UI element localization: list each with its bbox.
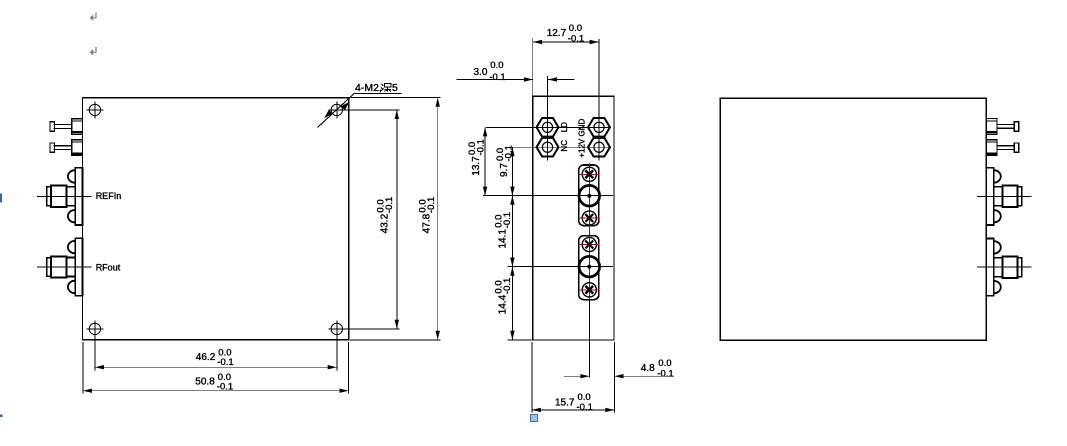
svg-text:-0.1: -0.1 [217, 357, 233, 368]
svg-text:0.0: 0.0 [490, 60, 503, 71]
dim 13.7 [467, 127, 487, 195]
dim 46.2 horizontal [95, 335, 337, 371]
slot outline group 1 [579, 165, 599, 226]
svg-text:12.7: 12.7 [547, 28, 567, 39]
svg-text:-0.1: -0.1 [384, 197, 395, 213]
dim 3.0 [457, 60, 575, 83]
corner hole bottom-left [86, 320, 103, 344]
dim 43.2 vertical [344, 110, 400, 329]
svg-text:-0.1: -0.1 [426, 197, 437, 213]
svg-text:LD: LD [560, 122, 569, 132]
svg-text:14.1: 14.1 [497, 229, 508, 249]
svg-text:-0.1: -0.1 [476, 139, 487, 155]
vertical extension below group 2 [588, 300, 590, 378]
svg-text:4.8: 4.8 [641, 363, 655, 374]
svg-text:14.4: 14.4 [497, 294, 508, 314]
dim 14.1 [493, 196, 514, 267]
paragraph mark 1 [91, 13, 97, 21]
dim 15.7 [532, 342, 615, 413]
small circle 2b [579, 283, 600, 297]
small circle 2a [579, 237, 600, 251]
SMA connector right view top [977, 168, 1031, 225]
dim 50.8 horizontal [83, 342, 349, 394]
right view body outline [720, 98, 986, 340]
svg-text:RFout: RFout [96, 263, 121, 273]
middle view body outline [533, 96, 614, 340]
hand-drawn CJK shen (depth) glyph [381, 84, 391, 92]
left view body outline [83, 98, 349, 340]
dim 9.7 [495, 145, 515, 196]
svg-text:REFIn: REFIn [96, 191, 122, 201]
hex nut +12V [588, 138, 610, 157]
svg-text:-0.1: -0.1 [568, 33, 584, 44]
svg-text:3.0: 3.0 [474, 67, 488, 78]
blue margin tick 1 [0, 194, 2, 203]
svg-text:-0.1: -0.1 [502, 212, 513, 228]
small circle 1a [579, 167, 600, 181]
nut row1 centerline [486, 126, 611, 128]
blue selection handle square [531, 414, 538, 421]
svg-text:-0.1: -0.1 [577, 402, 593, 413]
svg-text:46.2: 46.2 [196, 352, 216, 363]
corner hole top-left [86, 101, 103, 118]
svg-text:4-M2,: 4-M2, [355, 82, 382, 94]
svg-text:-0.1: -0.1 [489, 72, 505, 83]
red centerline vertical [588, 163, 590, 302]
svg-text:NC: NC [560, 140, 569, 152]
svg-text:47.8: 47.8 [422, 213, 433, 233]
nut row2 centerline [510, 146, 612, 148]
svg-text:5: 5 [392, 82, 398, 94]
label 4-M2 depth 5 [355, 82, 398, 94]
svg-text:+12V GND: +12V GND [577, 119, 586, 158]
pin connector P1 left view [50, 119, 83, 135]
blue margin tick 2 [0, 415, 3, 418]
pin connector P2 left view [50, 140, 83, 156]
large circle 1 [579, 185, 600, 206]
hex nut GND [588, 118, 610, 137]
centerline of circle group 1 [483, 195, 613, 197]
centerline of circle group 2 [508, 266, 614, 268]
hex nut NC [537, 138, 559, 157]
large circle 2 [579, 256, 600, 277]
svg-text:-0.1: -0.1 [502, 278, 513, 294]
svg-text:0.0: 0.0 [658, 358, 671, 369]
dim 4.8 [564, 342, 674, 413]
pin connector P2 right view [986, 140, 1019, 156]
leader 4-M2 [318, 93, 402, 127]
svg-text:-0.1: -0.1 [657, 368, 673, 379]
corner hole top-right (4-M2 target) [328, 101, 345, 118]
corner hole bottom-right [328, 320, 345, 344]
svg-text:15.7: 15.7 [555, 397, 575, 408]
svg-text:-0.1: -0.1 [217, 381, 233, 392]
nut column centerline left [547, 76, 549, 161]
paragraph mark 2 [91, 47, 97, 55]
slot outline group 2 [579, 236, 599, 300]
svg-text:50.8: 50.8 [195, 377, 215, 388]
SMA connector RFout left view [37, 238, 92, 295]
nut column centerline right [598, 39, 600, 161]
svg-text:13.7: 13.7 [471, 156, 482, 176]
svg-text:43.2: 43.2 [380, 213, 391, 233]
hex nut LD [537, 118, 559, 137]
pin connector P1 right view [986, 119, 1019, 135]
svg-text:9.7: 9.7 [499, 163, 510, 177]
small circle 1b [579, 211, 600, 225]
SMA connector right view bottom [977, 239, 1031, 296]
dim 14.4 [493, 267, 533, 340]
dim 47.8 vertical [350, 98, 441, 340]
dim 12.7 top [533, 23, 599, 96]
svg-text:-0.1: -0.1 [503, 145, 514, 161]
SMA connector REFIn left view [37, 168, 92, 225]
